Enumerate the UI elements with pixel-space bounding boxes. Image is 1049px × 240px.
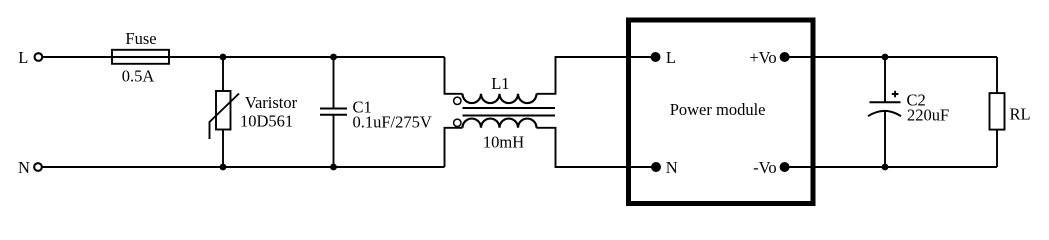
wire bottom rail into choke	[445, 128, 463, 167]
node C (junction dot, bottom of varistor)	[220, 164, 227, 171]
wire node B to choke corner (top rail)	[334, 56, 445, 58]
L1 bottom winding	[463, 119, 537, 128]
wire node D to choke corner (bottom rail)	[334, 166, 445, 168]
wire node C to node D (bottom rail)	[223, 166, 334, 168]
capacitor C1 bottom plate	[320, 114, 347, 116]
pin N terminal dot	[651, 162, 661, 172]
power module U1 (box)	[629, 20, 814, 204]
wire varistor top lead	[222, 57, 224, 91]
capacitor C2 positive plate	[870, 101, 901, 103]
terminal L	[35, 53, 43, 61]
wire C1 top lead	[333, 57, 335, 109]
wire top rail into choke	[445, 57, 463, 94]
svg-text:Varistor: Varistor	[245, 93, 298, 112]
L1 core line upper	[463, 107, 556, 109]
wire C2 top lead	[884, 57, 886, 102]
wire node E to RL (top right rail)	[885, 56, 997, 58]
node A (junction dot, top of varistor)	[220, 54, 227, 61]
svg-text:220uF: 220uF	[907, 106, 949, 125]
C2 polarity plus sign	[892, 91, 899, 98]
fuse F (body)	[112, 50, 169, 64]
node E (junction dot, top of C2)	[882, 54, 889, 61]
capacitor C2 curved plate	[868, 111, 901, 116]
wire RL bottom lead	[996, 130, 998, 167]
wire L to fuse	[43, 56, 112, 58]
pin +Vo terminal dot	[780, 52, 790, 62]
wire top rail to RL top lead	[996, 57, 998, 93]
varistor diagonal stroke	[210, 94, 240, 140]
wire node A to node B (top rail)	[223, 56, 334, 58]
varistor RV body	[216, 91, 231, 130]
wire N to node C (bottom rail)	[42, 166, 223, 168]
wire C1 bottom lead	[333, 115, 335, 167]
inductor L1 (common-mode choke)	[445, 57, 657, 167]
svg-text:10D561: 10D561	[240, 112, 293, 131]
capacitor C1 top plate	[320, 108, 347, 110]
L1 core line lower	[463, 115, 556, 117]
wire -Vo to node F (bottom right rail)	[785, 166, 885, 168]
svg-text:-Vo: -Vo	[753, 158, 777, 177]
wire fuse to node A	[169, 56, 223, 58]
terminal N	[34, 163, 42, 171]
pin -Vo terminal dot	[780, 162, 790, 172]
wire C2 bottom lead	[884, 111, 886, 167]
wire bottom winding to right riser	[537, 128, 657, 167]
svg-text:L1: L1	[491, 74, 509, 93]
wire top winding to right riser	[537, 57, 656, 94]
L1 phasing dot top	[454, 97, 461, 104]
svg-text:N: N	[666, 158, 678, 177]
svg-text:0.5A: 0.5A	[122, 67, 155, 86]
svg-text:Fuse: Fuse	[125, 29, 156, 48]
L1 phasing dot bottom	[454, 119, 461, 126]
pin L terminal dot	[651, 52, 661, 62]
wire +Vo to node E (top right rail)	[785, 56, 885, 58]
svg-text:10mH: 10mH	[483, 132, 524, 151]
svg-text:0.1uF/275V: 0.1uF/275V	[353, 112, 432, 131]
node F (junction dot, bottom of C2)	[882, 164, 889, 171]
node B (junction dot, top of C1)	[330, 54, 337, 61]
svg-text:L: L	[18, 48, 28, 67]
svg-text:Power module: Power module	[670, 100, 766, 119]
wire node F to RL (bottom right rail)	[885, 166, 997, 168]
svg-text:RL: RL	[1010, 105, 1031, 124]
svg-text:L: L	[666, 48, 676, 67]
svg-text:N: N	[18, 158, 30, 177]
node D (junction dot, bottom of C1)	[330, 164, 337, 171]
resistor RL body	[990, 93, 1005, 130]
wire varistor bottom lead	[222, 130, 224, 168]
L1 top winding	[463, 94, 537, 103]
wire through fuse	[112, 56, 169, 58]
svg-text:+Vo: +Vo	[749, 48, 776, 67]
